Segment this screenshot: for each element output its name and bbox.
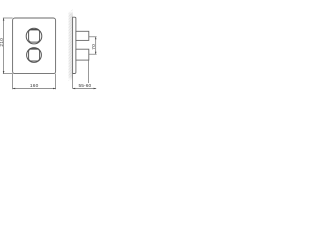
side view bottom knob stem xyxy=(76,49,89,60)
bottom dimension line 160 xyxy=(13,88,56,90)
bottom dimension extension lines xyxy=(13,74,56,90)
svg-text:70: 70 xyxy=(91,44,97,50)
top knob grip bar xyxy=(30,29,38,31)
dimension line 70 xyxy=(95,37,97,54)
side view plate profile xyxy=(73,17,76,73)
top knob outer circle xyxy=(26,28,42,44)
front view trim plate xyxy=(13,18,56,74)
extension line below wall xyxy=(72,74,74,89)
bottom knob outer circle xyxy=(27,48,42,63)
svg-text:210: 210 xyxy=(0,38,5,47)
bottom knob grip bar xyxy=(30,48,38,50)
extension lines for 70 dimension xyxy=(89,37,97,54)
extension line below stem front xyxy=(88,60,90,83)
bottom knob inner square xyxy=(29,49,40,61)
svg-text:160: 160 xyxy=(30,83,39,89)
left dimension line 210 xyxy=(3,18,5,74)
top knob inner square xyxy=(29,30,40,43)
side view top knob stem xyxy=(76,31,89,40)
dimension line 55-60 xyxy=(73,88,97,90)
svg-text:55-60: 55-60 xyxy=(79,83,92,89)
left dimension extension lines xyxy=(3,18,13,74)
